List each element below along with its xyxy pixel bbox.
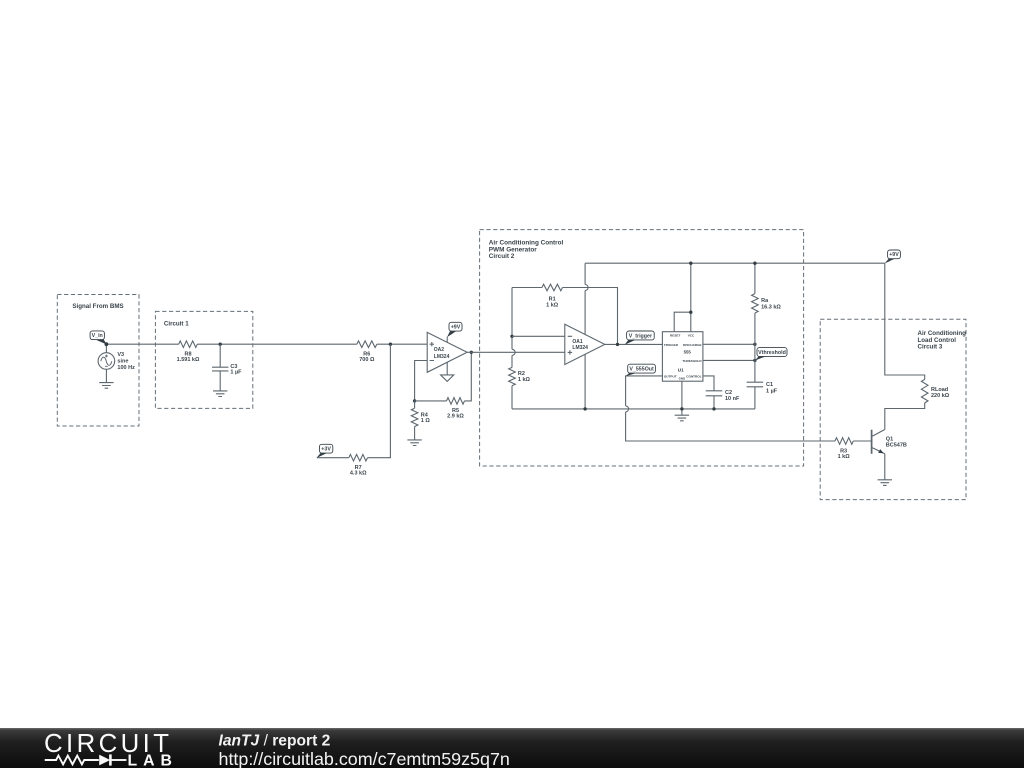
resistor RLoad 220 kΩ — [921, 379, 949, 403]
resistor R7 4.3 kΩ — [349, 454, 368, 476]
junction OA1 output / R1 — [616, 343, 619, 346]
svg-text:1.591 kΩ: 1.591 kΩ — [177, 357, 200, 363]
svg-text:1 µF: 1 µF — [230, 370, 242, 376]
svg-text:C2: C2 — [725, 390, 732, 396]
wire OA1 -input — [512, 335, 565, 337]
svg-text:+3V: +3V — [321, 447, 331, 453]
wire +9V rail down to RLoad — [885, 263, 925, 379]
footer title IanTJ / report 2 — [219, 732, 331, 749]
svg-text:Signal From BMS: Signal From BMS — [72, 303, 123, 310]
svg-text:10 nF: 10 nF — [725, 396, 740, 402]
wire Q1 emitter to ground — [884, 454, 886, 480]
resistor R8 1.591 kΩ — [177, 341, 200, 363]
svg-text:LM324: LM324 — [434, 354, 450, 360]
svg-text:V_trigger: V_trigger — [629, 333, 652, 339]
svg-text:Vthreshold: Vthreshold — [758, 350, 786, 356]
junction THRESHOLD — [753, 359, 756, 362]
junction RESET/VCC — [689, 311, 692, 314]
svg-text:V3: V3 — [117, 352, 124, 358]
ground OA2 negative supply (open triangle) — [441, 362, 454, 381]
junction node C3 top — [219, 343, 222, 346]
svg-text:1 Ω: 1 Ω — [421, 418, 431, 424]
net label +3V — [317, 444, 333, 458]
resistor R6 700 Ω — [357, 341, 377, 363]
wire R1 feedback vertical (with hop over output wire) — [512, 288, 515, 409]
junction 555 GND at rail — [680, 407, 683, 410]
svg-text:Circuit 1: Circuit 1 — [164, 321, 189, 328]
svg-text:2.9 kΩ: 2.9 kΩ — [447, 414, 464, 420]
resistor R1 1 kΩ and feedback wire — [512, 284, 618, 344]
wire 555 DISCHARGE to Ra line — [703, 343, 755, 345]
svg-text:1 µF: 1 µF — [766, 388, 778, 394]
wire bottom ground rail — [512, 408, 755, 410]
wire 555 OUTPUT down and right to R3 (hop over ground rail) — [626, 376, 835, 441]
voltage source V3 sine 100 Hz — [98, 344, 135, 382]
resistor R3 1 kΩ — [835, 438, 853, 461]
svg-text:1 kΩ: 1 kΩ — [546, 302, 559, 308]
footer URL — [219, 749, 510, 768]
ground below V3 — [99, 383, 113, 389]
wire +3V to R7 — [317, 457, 349, 459]
wire OA2 -input loop — [415, 361, 428, 401]
resistor R2 1 kΩ — [509, 367, 531, 385]
svg-text:220 kΩ: 220 kΩ — [931, 393, 950, 399]
logo resistor squiggle — [45, 756, 99, 765]
wire R8 to R6 — [197, 343, 356, 345]
svg-text:RESET: RESET — [670, 333, 680, 337]
capacitor C3 1 µF — [212, 344, 242, 391]
svg-text:V_in: V_in — [92, 333, 103, 339]
junction DISCHARGE — [753, 343, 756, 346]
logo LAB text — [128, 753, 178, 768]
dashed box Circuit 1 — [155, 311, 252, 408]
junction node R6/R7 — [389, 343, 392, 346]
svg-text:GND: GND — [679, 376, 685, 380]
ground below 555 — [675, 415, 689, 421]
svg-text:700 Ω: 700 Ω — [359, 357, 375, 363]
svg-text:16.3 kΩ: 16.3 kΩ — [761, 305, 781, 311]
svg-text:LAB: LAB — [128, 753, 178, 768]
resistor Ra 16.3 kΩ — [752, 263, 782, 382]
junction VCC at top rail — [689, 262, 692, 265]
svg-text:BC547B: BC547B — [886, 442, 907, 448]
op-amp OA2 LM324 — [427, 332, 467, 372]
svg-text:LM324: LM324 — [572, 345, 588, 351]
capacitor C2 10 nF — [706, 390, 740, 409]
svg-text:V_555Out: V_555Out — [629, 367, 654, 373]
svg-text:THRESHOLD: THRESHOLD — [682, 359, 702, 363]
svg-text:VCC: VCC — [688, 333, 695, 337]
wire V_in node to R8 — [106, 343, 178, 345]
svg-text:TRIGGER: TRIGGER — [664, 343, 679, 347]
svg-text:Circuit 2: Circuit 2 — [489, 253, 515, 260]
junction OA2 output — [470, 351, 473, 354]
svg-text:Ra: Ra — [761, 298, 769, 304]
svg-text:OA2: OA2 — [434, 347, 445, 353]
svg-text:100 Hz: 100 Hz — [117, 365, 135, 371]
net label V_in — [90, 331, 107, 345]
svg-text:DISCHARGE: DISCHARGE — [683, 343, 702, 347]
resistor R4 1 Ω — [411, 401, 430, 440]
junction node V_in — [105, 342, 109, 346]
capacitor C1 1 µF — [747, 382, 778, 409]
wire OA1 power rail vertical (with hop over R1 wire) — [585, 263, 588, 409]
wire RLoad to Q1 collector — [885, 403, 925, 430]
ground below C3 — [213, 391, 227, 397]
svg-text:sine: sine — [117, 359, 128, 365]
wire 555 CONTROL to C2 — [703, 376, 714, 391]
op-amp OA1 LM324 — [565, 324, 605, 364]
CircuitLab logo wordmark — [44, 730, 172, 758]
net label +9V (top right) — [885, 250, 901, 264]
svg-text:http://circuitlab.com/c7emtm59: http://circuitlab.com/c7emtm59z5q7n — [219, 749, 510, 768]
wire 555 THRESHOLD to Ra line — [703, 359, 755, 361]
svg-text:1 kΩ: 1 kΩ — [838, 454, 851, 460]
svg-text:CONTROL: CONTROL — [686, 374, 701, 378]
wire 555 RESET loop — [674, 312, 691, 332]
footer bar — [0, 728, 1024, 768]
wire OA2 output to OA1 +input — [467, 351, 565, 353]
svg-text:4.3 kΩ: 4.3 kΩ — [350, 470, 367, 476]
wire V_555Out row to R3 (left lead) — [853, 440, 872, 442]
junction OA1 power at bottom rail — [583, 407, 586, 410]
ground below R4 — [407, 440, 421, 446]
junction C2 at rail — [712, 407, 715, 410]
net label V_555Out — [625, 364, 655, 376]
ground below Q1 — [878, 480, 892, 486]
net label Vthreshold — [755, 348, 787, 361]
net label V_trigger — [625, 331, 654, 345]
logo diode — [99, 754, 126, 765]
svg-text:OUTPUT: OUTPUT — [664, 374, 677, 378]
junction node R4/R5 — [413, 399, 416, 402]
wire R6 to OA2 +input — [377, 343, 427, 345]
svg-text:C1: C1 — [766, 382, 773, 388]
net label +9V (OA2 supply pin) — [447, 322, 462, 342]
svg-text:IanTJ / report 2: IanTJ / report 2 — [219, 732, 331, 749]
dashed box Signal From BMS — [57, 295, 139, 427]
wire top +9V rail — [585, 262, 885, 264]
junction OA1 -input branch — [510, 335, 513, 338]
wire 555 VCC from top rail — [690, 263, 692, 332]
wire OA1 output to 555 TRIGGER — [605, 343, 663, 345]
dashed box PWM Generator Circuit 2 — [480, 230, 804, 466]
wire node to R5 — [415, 400, 447, 402]
wire node down to R7 — [368, 344, 391, 458]
svg-text:+9V: +9V — [889, 252, 899, 258]
wire R5 to OA2 output — [465, 352, 472, 401]
dashed box Load Control Circuit 3 — [820, 319, 966, 499]
svg-text:Circuit 3: Circuit 3 — [918, 344, 943, 351]
svg-text:RLoad: RLoad — [931, 387, 948, 393]
junction Ra at top rail — [753, 262, 756, 265]
resistor R5 2.9 kΩ — [447, 398, 465, 420]
svg-text:1 kΩ: 1 kΩ — [518, 377, 531, 383]
svg-text:+9V: +9V — [451, 325, 461, 331]
svg-text:U1: U1 — [678, 367, 684, 372]
svg-text:555: 555 — [684, 350, 692, 355]
transistor Q1 BC547B — [872, 430, 907, 454]
wire 555 GND to rail and ground — [681, 381, 683, 415]
555 timer U1 — [662, 332, 703, 382]
